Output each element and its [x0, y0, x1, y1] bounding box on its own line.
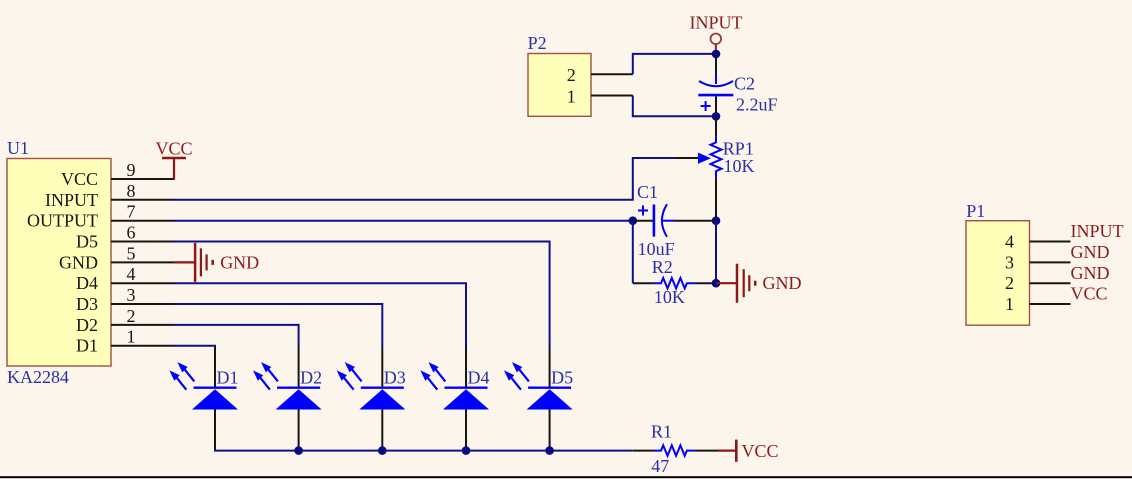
junction node at INPUT	[712, 50, 721, 59]
svg-text:3: 3	[127, 285, 136, 305]
svg-text:5: 5	[127, 243, 136, 263]
wire: U1 pin 1 to LED D1	[174, 346, 215, 347]
wire: U1 pin 6 down to LED D5	[174, 242, 550, 347]
svg-text:47: 47	[651, 456, 669, 476]
junction node at R2 right	[712, 279, 721, 288]
sheet bottom border area	[0, 477, 1132, 479]
svg-text:P2: P2	[528, 33, 547, 53]
junction node at C1 left	[629, 216, 638, 225]
U1 pin 8	[111, 199, 174, 201]
svg-text:1: 1	[567, 87, 576, 107]
svg-text:C1: C1	[637, 182, 658, 202]
wire: C1 right node down to R2 right node	[715, 221, 717, 284]
svg-text:C2: C2	[734, 73, 755, 93]
svg-text:GND: GND	[220, 252, 259, 272]
capacitor C2	[698, 54, 733, 116]
svg-text:3: 3	[1005, 252, 1014, 272]
U1 pin 6	[111, 241, 174, 243]
svg-text:GND: GND	[763, 273, 802, 293]
svg-text:VCC: VCC	[742, 441, 779, 461]
svg-text:GND: GND	[1071, 242, 1110, 262]
junction node at C1 right / RP1 bottom	[712, 216, 721, 225]
VCC power symbol (top, at U1 pin 9)	[162, 158, 186, 180]
svg-text:9: 9	[127, 160, 136, 180]
U1 pin 1	[111, 345, 174, 347]
P2 pin 2	[591, 73, 633, 75]
svg-text:U1: U1	[7, 138, 29, 158]
svg-text:D2: D2	[300, 367, 322, 387]
svg-text:D2: D2	[76, 315, 98, 335]
connector P1 body	[966, 221, 1030, 326]
svg-text:INPUT: INPUT	[45, 190, 98, 210]
svg-text:INPUT: INPUT	[1071, 221, 1124, 241]
P1 pin 1	[1030, 303, 1071, 305]
svg-text:D5: D5	[76, 232, 98, 252]
capacitor C1	[633, 204, 716, 237]
svg-text:2: 2	[127, 306, 136, 326]
U1 pin 5	[111, 261, 174, 263]
wire: C2 to RP1	[715, 116, 717, 137]
svg-text:1: 1	[127, 327, 136, 347]
wire: U1 pin 7 to C1 (OUTPUT net)	[174, 220, 633, 222]
junction node rail at D5	[545, 446, 554, 455]
U1 pin 2	[111, 324, 174, 326]
svg-text:VCC: VCC	[61, 169, 98, 189]
ground symbol at U1 pin 5	[174, 243, 213, 282]
svg-text:KA2284: KA2284	[7, 367, 69, 387]
svg-text:GND: GND	[1071, 263, 1110, 283]
svg-text:10K: 10K	[654, 287, 685, 307]
svg-text:P1: P1	[966, 201, 985, 221]
U1 pin 7	[111, 220, 174, 222]
junction node rail at D4	[462, 446, 471, 455]
svg-text:D3: D3	[76, 294, 98, 314]
LED D3	[337, 346, 406, 450]
svg-text:2.2uF: 2.2uF	[736, 95, 778, 115]
sheet border line	[0, 476, 1132, 478]
wire: P2 pin 2 up to INPUT node	[633, 54, 716, 74]
junction node rail at D3	[378, 446, 387, 455]
svg-text:6: 6	[127, 223, 136, 243]
wire: U1 pin 8 to RP1 wiper (INPUT net)	[174, 158, 676, 200]
svg-text:D4: D4	[76, 273, 98, 293]
wire: bottom rail from D1 to R1	[214, 450, 633, 452]
svg-text:D4: D4	[468, 367, 490, 387]
resistor R1	[633, 445, 718, 455]
connector P2 body	[528, 54, 591, 117]
svg-text:2: 2	[1005, 273, 1014, 293]
wire: P2 pin 1 down to C2 bottom node	[633, 96, 716, 117]
LED D2	[253, 346, 322, 450]
svg-text:D1: D1	[217, 367, 239, 387]
VCC power symbol (bottom right of R1)	[718, 440, 736, 462]
svg-text:R2: R2	[652, 257, 673, 277]
svg-text:INPUT: INPUT	[690, 12, 743, 32]
svg-text:1: 1	[1005, 294, 1014, 314]
svg-text:D5: D5	[551, 367, 573, 387]
U1 pin 9	[111, 178, 174, 180]
svg-text:4: 4	[127, 264, 136, 284]
INPUT port open circle	[711, 34, 722, 45]
wire: U1 pin 4 down to LED D4	[174, 283, 466, 346]
svg-text:10K: 10K	[724, 156, 755, 176]
junction node rail at D2	[294, 446, 303, 455]
wire: C1 left node down to R2	[632, 221, 634, 284]
U1 pin 4	[111, 282, 174, 284]
INPUT port stem	[715, 45, 717, 51]
svg-text:D1: D1	[76, 336, 98, 356]
potentiometer RP1	[676, 137, 722, 221]
svg-text:4: 4	[1005, 232, 1014, 252]
P1 pin 4	[1030, 241, 1071, 243]
P1 pin 2	[1030, 282, 1071, 284]
LED D1	[169, 346, 238, 450]
svg-text:R1: R1	[651, 421, 672, 441]
P1 pin 3	[1030, 261, 1071, 263]
IC U1 body	[7, 159, 111, 367]
U1 pin 3	[111, 303, 174, 305]
svg-text:OUTPUT: OUTPUT	[27, 211, 98, 231]
svg-text:7: 7	[127, 202, 136, 222]
svg-text:VCC: VCC	[1071, 284, 1108, 304]
LED D4	[420, 346, 489, 450]
P2 pin 1	[591, 95, 633, 97]
ground symbol at R2 node	[716, 264, 755, 303]
LED D5	[504, 346, 573, 450]
svg-text:GND: GND	[59, 252, 98, 272]
junction node below C2	[712, 112, 721, 121]
svg-text:8: 8	[127, 181, 136, 201]
svg-text:VCC: VCC	[155, 138, 192, 158]
wire: U1 pin 3 down to LED D3	[174, 304, 382, 347]
svg-text:D3: D3	[384, 367, 406, 387]
resistor R2	[633, 278, 716, 288]
wire: U1 pin 2 down to LED D2	[174, 325, 299, 347]
svg-text:2: 2	[567, 65, 576, 85]
